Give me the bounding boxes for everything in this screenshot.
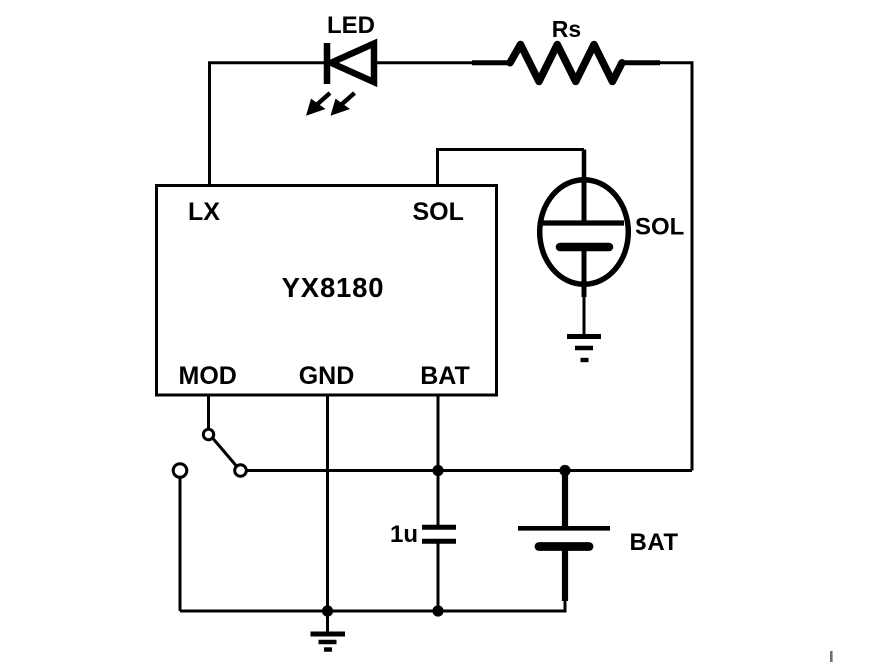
svg-text:Rs: Rs — [552, 16, 581, 42]
wire switch open terminal down to bottom rail — [179, 477, 182, 611]
svg-text:1u: 1u — [390, 521, 418, 548]
svg-text:SOL: SOL — [635, 214, 684, 241]
battery BT1 top lead — [562, 471, 568, 529]
wire bottom ground rail — [180, 598, 565, 611]
LED D1 cathode bar — [324, 43, 331, 84]
stray cursor mark bottom right — [830, 651, 833, 662]
resistor Rs zigzag — [510, 45, 622, 82]
solar cell top plate — [543, 220, 625, 225]
wire BAT pin down to rail node — [437, 395, 440, 471]
wire resistor Rs right lead to right-side vertical down to battery node — [654, 63, 692, 471]
wire MOD pin down to switch pole — [207, 395, 210, 429]
solar cell bottom lead — [582, 249, 587, 297]
svg-text:YX8180: YX8180 — [282, 272, 385, 303]
svg-text:GND: GND — [299, 362, 355, 390]
switch S1 throw circle (closed contact) — [235, 465, 247, 477]
battery BT1 positive plate (long) — [518, 526, 610, 531]
resistor Rs right lead — [621, 60, 660, 65]
svg-text:BAT: BAT — [420, 362, 470, 390]
wire SOL pin up and over to solar cell top — [438, 150, 585, 187]
node junction BAT pin / rail — [432, 465, 443, 476]
solar cell bottom plate — [560, 243, 609, 252]
node junction battery top / rail — [559, 465, 570, 476]
svg-text:LED: LED — [327, 12, 375, 39]
LED D1 triangle — [331, 44, 374, 83]
LED light arrow 2 — [331, 93, 355, 116]
wire capacitor C1 top lead — [437, 471, 440, 528]
ground (solar cell) — [567, 337, 601, 361]
capacitor C1 bottom plate — [422, 539, 456, 544]
wire solar cell to ground — [583, 295, 586, 336]
svg-text:SOL: SOL — [413, 198, 464, 226]
capacitor C1 top plate — [422, 525, 456, 530]
wire LED cathode to resistor Rs left lead — [374, 61, 478, 64]
wire LX pin up and over to LED anode — [210, 63, 325, 186]
node junction rail / capacitor — [432, 605, 443, 616]
battery BT1 negative plate (short thick) — [539, 542, 589, 551]
resistor Rs left lead — [472, 60, 511, 65]
switch S1 pole circle — [203, 429, 213, 439]
LED light arrow 1 — [306, 93, 330, 116]
svg-text:MOD: MOD — [179, 362, 237, 390]
ground (main) — [311, 634, 346, 650]
solar cell internal top lead — [582, 178, 587, 223]
wire GND pin down to bottom rail and main ground — [326, 395, 329, 633]
svg-text:LX: LX — [188, 198, 220, 226]
svg-text:BAT: BAT — [630, 529, 679, 556]
node junction rail / main ground — [322, 605, 333, 616]
wire switch throw to battery rail (horizontal) — [247, 469, 692, 472]
solar cell SOL body ellipse — [540, 180, 629, 285]
IC U1 YX8180 box — [157, 186, 497, 396]
battery BT1 bottom lead — [562, 549, 568, 601]
wire capacitor C1 bottom lead — [437, 541, 440, 611]
switch S1 lever — [213, 439, 236, 466]
switch S1 open terminal circle — [173, 464, 187, 478]
